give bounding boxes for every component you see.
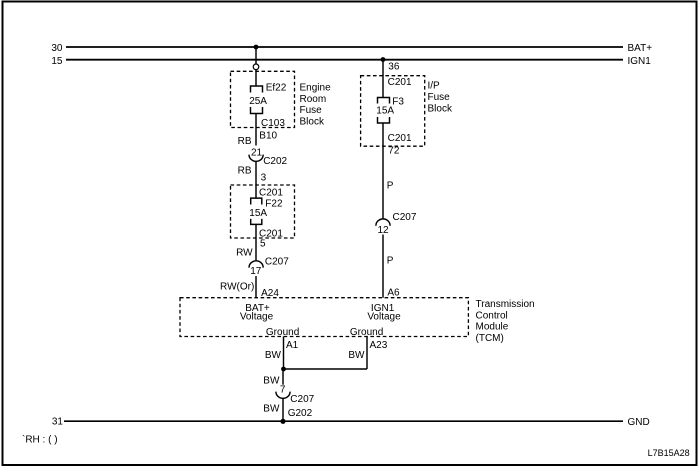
svg-text:P: P [387, 256, 394, 267]
svg-text:RB: RB [238, 166, 252, 177]
svg-text:Block: Block [300, 116, 325, 127]
svg-text:30: 30 [51, 43, 63, 54]
svg-text:C202: C202 [263, 156, 287, 167]
fuse F3 15A symbol [378, 98, 390, 104]
svg-text:BAT+: BAT+ [628, 43, 653, 54]
wire TCM pin A1 ground lead [283, 337, 285, 370]
svg-text:36: 36 [388, 62, 400, 73]
svg-text:15: 15 [51, 56, 63, 67]
svg-text:5: 5 [260, 239, 266, 250]
svg-text:Room: Room [300, 94, 327, 105]
wire from ground junction to connector C207 pin 7 [282, 369, 284, 385]
svg-text:72: 72 [388, 146, 400, 157]
svg-text:`RH : ( ): `RH : ( ) [22, 434, 58, 446]
svg-text:(TCM): (TCM) [476, 333, 504, 344]
svg-text:Ef22: Ef22 [266, 83, 287, 94]
svg-text:Ground: Ground [266, 327, 299, 338]
fuse Ef22 25A symbol [251, 86, 263, 93]
svg-text:C207: C207 [290, 394, 314, 405]
svg-text:IGN1: IGN1 [628, 56, 652, 67]
wire from fuse Ef22 to connector C202 [255, 114, 257, 146]
svg-text:B10: B10 [259, 130, 277, 141]
svg-text:A23: A23 [370, 340, 388, 351]
svg-text:3: 3 [261, 173, 267, 184]
svg-text:I/P: I/P [428, 81, 441, 92]
svg-text:C207: C207 [265, 256, 289, 267]
connector C207 pin 7 arc symbol [276, 392, 290, 399]
svg-text:25A: 25A [249, 96, 267, 107]
svg-text:F22: F22 [265, 198, 283, 209]
svg-text:BW: BW [265, 350, 282, 361]
svg-text:RB: RB [238, 136, 252, 147]
fuse F22 15A symbol [251, 198, 262, 204]
I/P Fuse Block dashed box [361, 76, 425, 147]
svg-text:C201: C201 [388, 133, 412, 144]
svg-text:A24: A24 [261, 288, 279, 299]
svg-text:Control: Control [476, 310, 508, 321]
wire from circle into Engine Room Fuse Block to fuse Ef22 [255, 70, 257, 86]
svg-text:RW(Or): RW(Or) [220, 282, 254, 293]
svg-text:P: P [387, 180, 394, 191]
Engine Room Fuse Block dashed box [231, 71, 295, 127]
svg-text:Block: Block [428, 104, 453, 115]
svg-text:Fuse: Fuse [300, 105, 323, 116]
wire joining A1 and A23 ground leads [284, 368, 368, 370]
svg-text:F3: F3 [392, 96, 404, 107]
svg-text:Fuse: Fuse [428, 92, 451, 103]
svg-text:RW: RW [236, 248, 253, 259]
svg-text:BW: BW [263, 404, 280, 415]
svg-text:7: 7 [280, 384, 286, 395]
open circle terminal above Engine Room Fuse Block [253, 64, 259, 70]
junction dot ground G202 on bus 31 [280, 419, 285, 424]
wire from fuse F22 to connector C207 pin 17 [255, 224, 257, 261]
svg-text:C201: C201 [388, 77, 412, 88]
wire from connector C207 to TCM pin A6 [382, 235, 384, 298]
junction dot on bus 15 at node of I/P feed [381, 57, 386, 62]
connector C202 arc symbol [249, 155, 263, 162]
svg-text:Engine: Engine [300, 83, 332, 94]
svg-text:15A: 15A [249, 208, 267, 219]
svg-text:17: 17 [250, 266, 262, 277]
svg-text:G202: G202 [288, 408, 313, 419]
connector C207 pin 12 arc symbol [376, 219, 390, 226]
svg-text:Voltage: Voltage [240, 312, 274, 323]
svg-text:GND: GND [628, 417, 650, 428]
svg-text:A1: A1 [286, 340, 299, 351]
svg-text:12: 12 [377, 225, 389, 236]
wire from bus 30 to open circle [255, 47, 257, 64]
svg-text:Ground: Ground [350, 327, 383, 338]
wire bus 30 BAT+ [66, 46, 623, 48]
wire from connector C207 to TCM pin A24 [255, 276, 257, 298]
connector C207 pin 17 arc symbol [249, 261, 263, 268]
svg-text:Module: Module [476, 322, 509, 333]
C201 fuse block dashed box (F22) [231, 185, 295, 238]
svg-text:Voltage: Voltage [367, 312, 401, 323]
svg-text:Transmission: Transmission [476, 299, 535, 310]
svg-text:BW: BW [348, 350, 365, 361]
wire bus 15 IGN1 [66, 59, 623, 61]
wire from bus 15 into I/P Fuse Block to fuse F3 [382, 60, 384, 98]
svg-text:A6: A6 [387, 287, 400, 298]
wire from fuse F3 to connector C207 pin 12 [382, 123, 384, 219]
wire bus 31 GND [64, 420, 623, 422]
svg-text:21: 21 [251, 147, 263, 158]
svg-text:31: 31 [52, 417, 64, 428]
svg-text:L7B15A28: L7B15A28 [648, 448, 690, 458]
wire from connector C207 pin 7 to ground G202 on bus 31 [282, 398, 284, 421]
svg-text:C103: C103 [261, 118, 285, 129]
wire TCM pin A23 ground lead [366, 337, 368, 370]
wire from connector C202 to fuse F22 [255, 161, 257, 198]
svg-text:BW: BW [263, 376, 280, 387]
Transmission Control Module dashed box [180, 298, 468, 337]
svg-text:C201: C201 [259, 187, 283, 198]
svg-text:C207: C207 [393, 212, 417, 223]
junction dot joining ground leads [281, 367, 286, 372]
svg-text:15A: 15A [376, 105, 394, 116]
junction dot on bus 30 at node of Engine Room feed [254, 45, 259, 50]
